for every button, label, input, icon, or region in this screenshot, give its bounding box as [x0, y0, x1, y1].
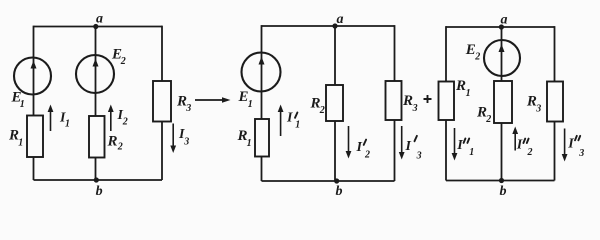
label I'3 circuit 2 — [405, 136, 422, 161]
svg-text:b: b — [500, 184, 507, 199]
label I&quot;2 circuit 3 — [516, 138, 533, 159]
svg-text:R: R — [402, 93, 413, 109]
current arrow I'2 circuit 2 — [346, 126, 352, 159]
label R3 circuit 2 — [402, 93, 418, 114]
node b circuit 2 — [334, 178, 339, 183]
source E2 circuit 3 — [484, 40, 520, 76]
svg-text:2: 2 — [485, 114, 491, 125]
resistor R2 circuit 1 — [89, 116, 105, 158]
label node a circuit 2 — [337, 12, 344, 27]
label node a circuit 1 — [96, 12, 103, 27]
wire: circuit 1 middle branch — [95, 27, 97, 181]
plus sign between circuit 2 and circuit 3 — [424, 95, 432, 103]
svg-text:3: 3 — [416, 150, 422, 161]
current arrow I3 circuit 1 — [170, 124, 176, 154]
resistor R3 circuit 3 — [547, 82, 563, 122]
svg-text:3: 3 — [535, 104, 541, 115]
label R3 circuit 1 — [176, 93, 191, 114]
label R1 circuit 3 — [455, 78, 471, 99]
label R2 circuit 1 — [107, 134, 123, 153]
resistor R1 circuit 2 — [255, 119, 269, 157]
svg-text:b: b — [96, 184, 103, 199]
label I'2 circuit 2 — [356, 140, 371, 161]
label E2 circuit 1 — [111, 47, 126, 68]
current arrow I1 circuit 1 — [48, 105, 54, 132]
source E2 circuit 1 — [76, 55, 114, 93]
svg-text:a: a — [96, 12, 103, 27]
node b circuit 3 — [499, 178, 504, 183]
node a circuit 2 — [332, 23, 337, 28]
resistor R2 circuit 2 — [326, 85, 343, 121]
label node b circuit 2 — [336, 184, 343, 199]
svg-text:1: 1 — [18, 137, 23, 148]
svg-text:2: 2 — [474, 52, 480, 63]
current arrow I2 circuit 1 — [108, 105, 114, 132]
svg-text:I: I — [356, 140, 363, 155]
wire: circuit 1 top rail — [34, 26, 163, 28]
label node b circuit 1 — [96, 184, 103, 199]
svg-text:2: 2 — [122, 117, 128, 128]
svg-text:I: I — [567, 137, 574, 152]
source E1 circuit 2 — [242, 53, 281, 92]
svg-text:R: R — [107, 134, 118, 150]
svg-text:3: 3 — [578, 148, 584, 159]
label I2 circuit 1 — [117, 108, 128, 128]
label node b circuit 3 — [500, 184, 507, 199]
svg-text:I: I — [516, 138, 523, 153]
node b circuit 1 — [94, 177, 99, 182]
svg-text:2: 2 — [120, 56, 126, 67]
label node a circuit 3 — [501, 13, 508, 28]
svg-text:1: 1 — [466, 88, 471, 99]
resistor R1 circuit 3 — [439, 82, 455, 121]
svg-text:1: 1 — [65, 119, 70, 130]
svg-text:a: a — [337, 12, 344, 27]
wire: circuit 2 bottom rail — [262, 180, 395, 182]
svg-text:3: 3 — [183, 136, 189, 147]
current arrow I'3 circuit 2 — [399, 126, 405, 160]
wire: circuit 3 left branch — [445, 26, 447, 180]
svg-text:R: R — [526, 93, 537, 109]
label R2 circuit 2 — [310, 96, 325, 117]
wire: circuit 2 middle branch — [334, 26, 336, 181]
wire: circuit 1 right branch — [161, 26, 163, 180]
current arrow I&quot;3 circuit 3 — [562, 129, 568, 162]
svg-text:I: I — [456, 138, 463, 153]
svg-text:b: b — [336, 184, 343, 199]
current arrow I'1 circuit 2 — [278, 105, 284, 137]
wire: circuit 3 middle branch — [501, 27, 503, 181]
label I'1 circuit 2 — [286, 111, 300, 131]
node a circuit 1 — [93, 24, 98, 29]
label R1 circuit 1 — [8, 128, 23, 149]
svg-text:1: 1 — [20, 99, 25, 110]
svg-text:2: 2 — [527, 147, 533, 158]
node a circuit 3 — [499, 24, 504, 29]
label E1 circuit 1 — [11, 90, 25, 111]
current arrow I&quot;1 circuit 3 — [452, 128, 458, 161]
label I3 circuit 1 — [178, 127, 189, 147]
wire: circuit 2 left branch — [261, 25, 263, 181]
current arrow I&quot;2 circuit 3 — [512, 127, 518, 151]
label E2 circuit 3 — [465, 42, 480, 63]
source E1 circuit 1 — [14, 58, 51, 95]
svg-text:3: 3 — [412, 103, 418, 114]
svg-text:I: I — [405, 139, 412, 154]
resistor R3 circuit 1 — [153, 81, 171, 122]
svg-text:I: I — [286, 111, 293, 126]
svg-text:2: 2 — [319, 105, 325, 116]
wire: circuit 2 right branch — [394, 25, 396, 181]
resistor R2 circuit 3 — [494, 81, 512, 123]
svg-text:1: 1 — [247, 138, 252, 149]
svg-text:2: 2 — [364, 150, 370, 161]
svg-text:3: 3 — [185, 103, 191, 114]
svg-text:1: 1 — [248, 99, 253, 110]
implication arrow between circuit 1 and circuit 2 — [195, 97, 231, 102]
svg-text:1: 1 — [469, 147, 474, 158]
wire: circuit 1 left branch — [33, 26, 35, 180]
label I1 circuit 1 — [59, 110, 70, 129]
svg-text:a: a — [501, 13, 508, 28]
wire: circuit 3 bottom rail — [446, 180, 555, 182]
label E1 circuit 2 — [238, 89, 253, 110]
wire: circuit 1 bottom rail — [34, 179, 163, 181]
svg-text:1: 1 — [295, 119, 300, 130]
svg-text:R: R — [455, 78, 466, 94]
label R3 circuit 3 — [526, 93, 541, 114]
label R1 circuit 2 — [237, 128, 252, 149]
label I&quot;3 circuit 3 — [567, 136, 584, 159]
svg-text:E: E — [465, 42, 476, 58]
wire: circuit 2 top rail — [262, 25, 395, 27]
resistor R1 circuit 1 — [27, 116, 43, 158]
wire: circuit 3 top rail — [446, 26, 555, 28]
svg-text:2: 2 — [117, 142, 123, 153]
resistor R3 circuit 2 — [386, 81, 402, 120]
wire: circuit 3 right branch — [554, 26, 556, 180]
label I&quot;1 circuit 3 — [456, 138, 474, 158]
label R2 circuit 3 — [476, 105, 491, 126]
